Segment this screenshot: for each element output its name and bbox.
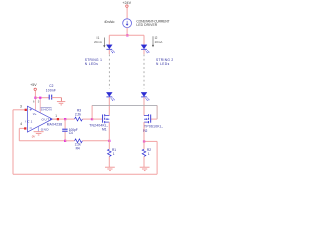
pin 5 SHDN lead	[38, 99, 41, 113]
resistor R4 2.2k	[65, 139, 82, 151]
pin 3 noninverting input	[13, 105, 27, 111]
svg-text:V+: V+	[33, 112, 37, 116]
node gate junction	[91, 118, 93, 120]
wire string2 top	[143, 35, 145, 45]
wire gate run down to M2	[156, 105, 158, 119]
annotation I1 20mA current arrow	[94, 36, 105, 47]
svg-text:20mA: 20mA	[155, 40, 163, 44]
svg-text:N LEDs: N LEDs	[85, 62, 99, 66]
svg-text:1: 1	[148, 152, 150, 156]
pin 6 V+ lead	[33, 99, 36, 111]
wire gate node up	[91, 105, 93, 119]
wire R4 to M1 source node	[82, 140, 109, 142]
pin GND lead of op-amp	[37, 126, 39, 131]
svg-text:IC1: IC1	[25, 119, 32, 123]
svg-text:2.2k: 2.2k	[75, 112, 81, 116]
resistor R2 1	[142, 148, 151, 156]
ground (op-amp)	[32, 132, 44, 139]
wire right sense rail up	[156, 141, 158, 174]
ground (C2)	[57, 102, 65, 105]
svg-text:0V: 0V	[32, 134, 35, 138]
wire LED D3 to dashed	[143, 50, 145, 55]
ground (R1)	[105, 167, 115, 170]
wire gate run across	[92, 104, 157, 106]
svg-text:N LEDs: N LEDs	[156, 62, 170, 66]
LED D1 (string1 top)	[106, 45, 114, 53]
current source I3 40mAdc	[104, 19, 132, 28]
svg-text:100nF: 100nF	[46, 89, 56, 93]
LED D3 (string2 top)	[141, 45, 149, 53]
op-amp IC1 MAX4238	[25, 106, 62, 132]
wire LED D2 to M1 drain	[108, 97, 110, 115]
transistor M2 TP0610KL (PMOS)	[143, 114, 163, 133]
svg-text:4: 4	[20, 122, 22, 126]
wire M2 source down	[143, 122, 145, 149]
node V+ junction	[34, 97, 36, 99]
wire R3 to gate node	[82, 118, 92, 120]
svg-text:MAX4238: MAX4238	[47, 123, 62, 127]
wire bottom sense rail	[13, 173, 157, 175]
wire C2 to ground	[52, 98, 62, 102]
svg-text:M1: M1	[102, 128, 107, 132]
svg-text:C2: C2	[49, 84, 53, 88]
wire current source to split node	[126, 28, 128, 36]
wire V+ rail to C2	[35, 97, 49, 99]
wire split rail to both strings	[109, 34, 144, 36]
node split junction	[126, 34, 128, 36]
svg-text:GND: GND	[41, 128, 50, 132]
wire R1 to ground	[108, 156, 110, 167]
node C4 tap on output	[64, 118, 66, 120]
wire string2 dashed continuation	[143, 55, 145, 89]
svg-text:1: 1	[113, 152, 115, 156]
wire to M2 gate	[151, 118, 157, 120]
wire left sense rail down	[12, 110, 14, 174]
svg-text:C4: C4	[69, 131, 73, 135]
wire string1 top	[108, 35, 110, 45]
node M1 source junction	[108, 140, 110, 142]
wire feedback rail to C4 node	[19, 140, 65, 142]
svg-text:3: 3	[20, 105, 22, 109]
label STRING 2 N LEDs	[156, 58, 173, 66]
node C4 bottom junction	[64, 140, 66, 142]
svg-text:40mAdc: 40mAdc	[104, 20, 115, 24]
LED D4 (string2 bottom)	[141, 92, 149, 100]
pin 1 op-amp output	[52, 114, 59, 120]
resistor R3 2.2k	[75, 108, 83, 121]
svg-text:OUT: OUT	[42, 117, 50, 121]
transistor M1 TN2404KL (NMOS)	[89, 114, 109, 131]
wire +5V down to V+ rail	[34, 91, 36, 98]
LED D2 (string1 bottom)	[106, 92, 114, 100]
wire R2 to ground	[143, 156, 145, 167]
wire string1 dashed continuation	[108, 55, 110, 89]
wire +24V to current source I3	[126, 7, 128, 18]
svg-text:LED DRIVER: LED DRIVER	[136, 23, 157, 27]
label CONSTANT-CURRENT LED DRIVER	[136, 19, 169, 27]
node +24V power flag	[122, 1, 131, 7]
label STRING 1 N LEDs	[85, 58, 102, 66]
svg-text:R4: R4	[76, 147, 80, 151]
ground (R2)	[140, 167, 150, 170]
capacitor C4 100pF	[62, 119, 78, 141]
svg-text:+24V: +24V	[122, 1, 131, 5]
svg-text:20mA: 20mA	[94, 40, 102, 44]
wire output to R3	[59, 118, 75, 120]
capacitor C2 100nF	[46, 84, 56, 99]
svg-text:+5V: +5V	[30, 83, 37, 87]
wire LED D1 to dashed	[108, 50, 110, 55]
wire M1 source down	[108, 122, 110, 149]
svg-text:SHDN: SHDN	[41, 107, 52, 111]
wire pin4 feedback rail down	[18, 128, 20, 140]
node SHDN junction	[39, 97, 41, 99]
svg-text:1: 1	[55, 114, 57, 118]
annotation I2 20mA current arrow	[152, 36, 163, 47]
node M2 source junction	[143, 140, 145, 142]
resistor R1 1	[108, 148, 117, 156]
pin 4 inverting input	[19, 122, 26, 130]
wire sense link to M2 source node	[144, 140, 157, 142]
wire LED D4 to M2 drain	[143, 97, 145, 115]
node +5V power flag	[30, 83, 37, 90]
wire gate node to M1 gate	[92, 118, 102, 120]
